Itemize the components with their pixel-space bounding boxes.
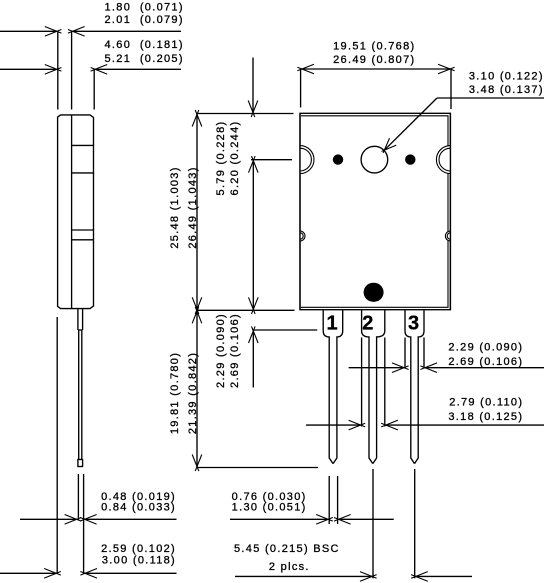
svg-text:2.69 (0.106): 2.69 (0.106) xyxy=(229,313,241,388)
svg-text:5.45 (0.215) BSC: 5.45 (0.215) BSC xyxy=(234,543,340,555)
svg-text:2.79 (0.110): 2.79 (0.110) xyxy=(449,396,523,408)
svg-text:19.51 (0.768): 19.51 (0.768) xyxy=(333,40,415,52)
svg-text:3.10 (0.122): 3.10 (0.122) xyxy=(469,71,544,83)
svg-text:25.48 (1.003): 25.48 (1.003) xyxy=(169,166,181,248)
svg-text:26.49 (0.807): 26.49 (0.807) xyxy=(333,54,415,66)
svg-text:6.20 (0.244): 6.20 (0.244) xyxy=(229,121,241,196)
svg-text:2.01 (0.079): 2.01 (0.079) xyxy=(105,14,184,26)
svg-text:0.84 (0.033): 0.84 (0.033) xyxy=(101,502,176,514)
svg-text:3.48 (0.137): 3.48 (0.137) xyxy=(469,84,544,96)
svg-text:5.79 (0.228): 5.79 (0.228) xyxy=(215,121,227,196)
svg-text:19.81 (0.780): 19.81 (0.780) xyxy=(169,352,181,434)
svg-text:2 plcs.: 2 plcs. xyxy=(269,561,310,573)
svg-text:2.69 (0.106): 2.69 (0.106) xyxy=(448,356,523,368)
svg-text:3: 3 xyxy=(408,312,419,334)
svg-text:2: 2 xyxy=(362,312,373,334)
svg-text:2.59 (0.102): 2.59 (0.102) xyxy=(101,543,176,555)
svg-text:3.18 (0.125): 3.18 (0.125) xyxy=(448,411,523,423)
svg-text:1: 1 xyxy=(326,312,337,334)
svg-text:1.80 (0.071): 1.80 (0.071) xyxy=(105,2,184,14)
svg-text:26.49 (1.043): 26.49 (1.043) xyxy=(187,166,199,248)
svg-text:21.39 (0.842): 21.39 (0.842) xyxy=(187,352,199,434)
svg-text:5.21 (0.205): 5.21 (0.205) xyxy=(105,53,184,65)
svg-text:4.60 (0.181): 4.60 (0.181) xyxy=(105,39,184,51)
svg-text:2.29 (0.090): 2.29 (0.090) xyxy=(448,341,523,353)
svg-text:3.00 (0.118): 3.00 (0.118) xyxy=(102,555,176,567)
svg-text:1.30 (0.051): 1.30 (0.051) xyxy=(232,502,307,514)
svg-text:2.29 (0.090): 2.29 (0.090) xyxy=(215,313,227,388)
